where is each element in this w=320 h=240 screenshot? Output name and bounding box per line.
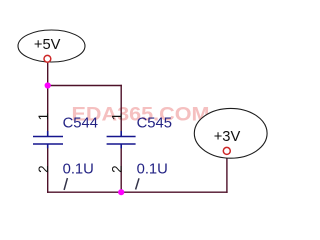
svg-text:C545: C545 [137,116,172,132]
C545 assembly slash [136,178,139,189]
capacitor C545 [107,131,136,148]
svg-text:1: 1 [36,113,51,121]
wire: C545 lower lead [120,148,122,193]
svg-text:+5V: +5V [34,37,61,53]
capacitor C544 [33,131,63,148]
power symbol +5V [18,30,85,62]
power symbol +3V [194,108,267,158]
wire: +3V riser [226,154,228,193]
junction dot at C545 bottom node [118,189,124,195]
svg-text:2: 2 [36,165,51,173]
svg-text:2: 2 [109,165,124,173]
wire: C544 upper lead [47,86,49,133]
svg-text:C544: C544 [63,116,98,132]
junction dot at +5V node [45,82,51,88]
svg-text:+3V: +3V [214,129,241,145]
svg-text:1: 1 [109,113,124,121]
wire: top rail from junction to C545 drop [47,85,122,87]
wire: +5V lead down to junction [47,62,49,86]
wire: bottom rail [47,191,228,193]
wire: C545 upper lead [120,85,122,132]
svg-text:0.1U: 0.1U [137,161,168,177]
C544 assembly slash [64,178,67,190]
svg-text:0.1U: 0.1U [63,161,94,177]
wire: C544 lower lead [47,148,49,193]
